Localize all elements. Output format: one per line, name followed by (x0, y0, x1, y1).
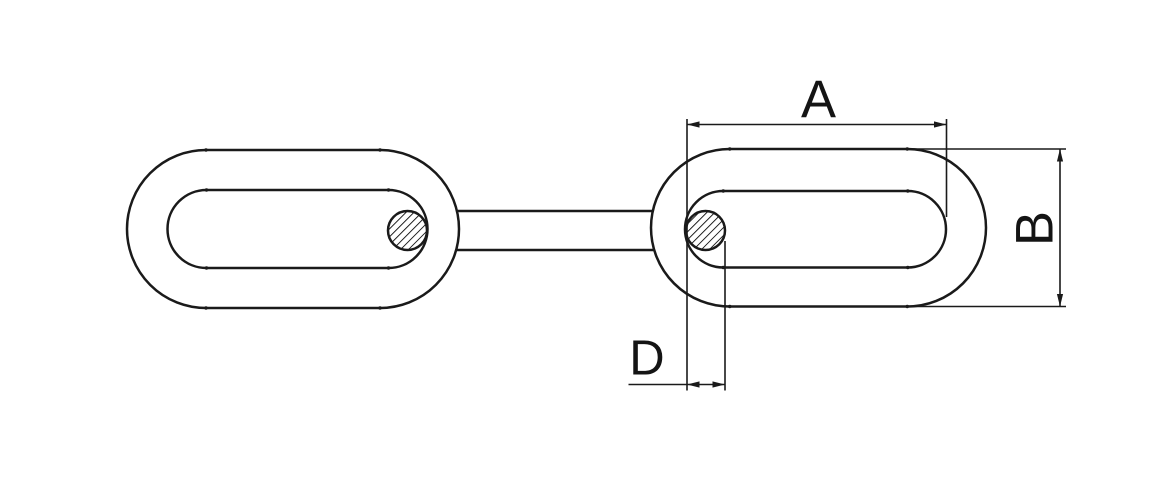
extension line: A right (946, 119, 948, 217)
left chain link inner outline (168, 190, 428, 268)
dimension/leader line D (629, 381, 726, 387)
tangent point ticks on outlines (204, 147, 909, 309)
extension line: B bottom (905, 306, 1066, 308)
svg-text:D: D (629, 332, 664, 386)
dimension line A (687, 121, 947, 127)
svg-text:B: B (1006, 211, 1065, 246)
extension line: D right (724, 241, 726, 391)
right chain link inner outline (685, 191, 946, 268)
wire: middle link top edge (edge-on link) (455, 210, 655, 213)
svg-text:A: A (801, 70, 836, 129)
dimension line B (1057, 149, 1063, 307)
wire cross-section circle in left link (hatched) (388, 211, 427, 250)
wire: middle link bottom edge (edge-on link) (455, 249, 655, 252)
right chain link outer outline (651, 149, 986, 307)
extension line: B top (905, 148, 1066, 150)
extension line: A left / D left (vertical through circle tangent) (686, 119, 688, 391)
wire cross-section circle in right link (hatched) (686, 211, 725, 250)
left chain link outer outline (127, 150, 459, 308)
